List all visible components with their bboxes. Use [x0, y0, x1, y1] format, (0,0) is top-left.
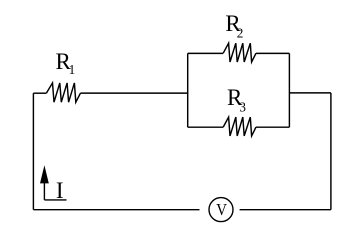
svg-text:2: 2 — [237, 25, 244, 40]
current arrow head — [40, 165, 49, 183]
wire box bottom edge left of R3 — [188, 126, 224, 128]
wire box bottom edge right of R3 — [256, 126, 289, 128]
svg-text:V: V — [216, 201, 227, 219]
wire parallel box left edge — [187, 53, 189, 127]
resistor R3 — [223, 117, 256, 136]
wire top horizontal left of R1 — [33, 92, 46, 94]
current arrow base bracket — [44, 199, 66, 201]
wire right vertical — [330, 93, 332, 210]
wire bottom left segment — [33, 209, 199, 211]
current arrow shaft — [43, 183, 45, 200]
resistor R2 — [223, 43, 256, 62]
wire box top edge right of R2 — [256, 52, 289, 54]
svg-text:I: I — [56, 178, 64, 203]
wire box right edge — [288, 53, 290, 127]
voltmeter V circle — [209, 198, 233, 222]
wire R1 to parallel box — [81, 92, 188, 94]
wire box top edge left of R2 — [188, 52, 224, 54]
wire bottom right segment — [240, 209, 331, 211]
svg-text:1: 1 — [69, 62, 76, 77]
wire box to top-right corner — [289, 92, 331, 94]
wire left vertical — [32, 93, 34, 210]
resistor R1 — [46, 83, 80, 102]
svg-text:3: 3 — [239, 99, 246, 114]
